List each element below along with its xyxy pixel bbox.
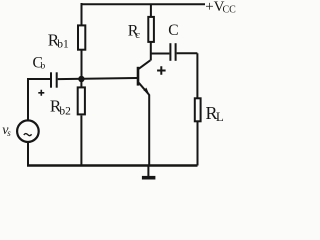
svg-text:c: c	[135, 29, 140, 41]
svg-text:C: C	[168, 22, 178, 39]
svg-text:b1: b1	[57, 39, 69, 51]
svg-text:L: L	[216, 109, 224, 124]
svg-text:CC: CC	[223, 5, 237, 16]
svg-text:b: b	[41, 62, 46, 72]
svg-text:b2: b2	[59, 106, 71, 118]
svg-text:s: s	[7, 128, 11, 138]
